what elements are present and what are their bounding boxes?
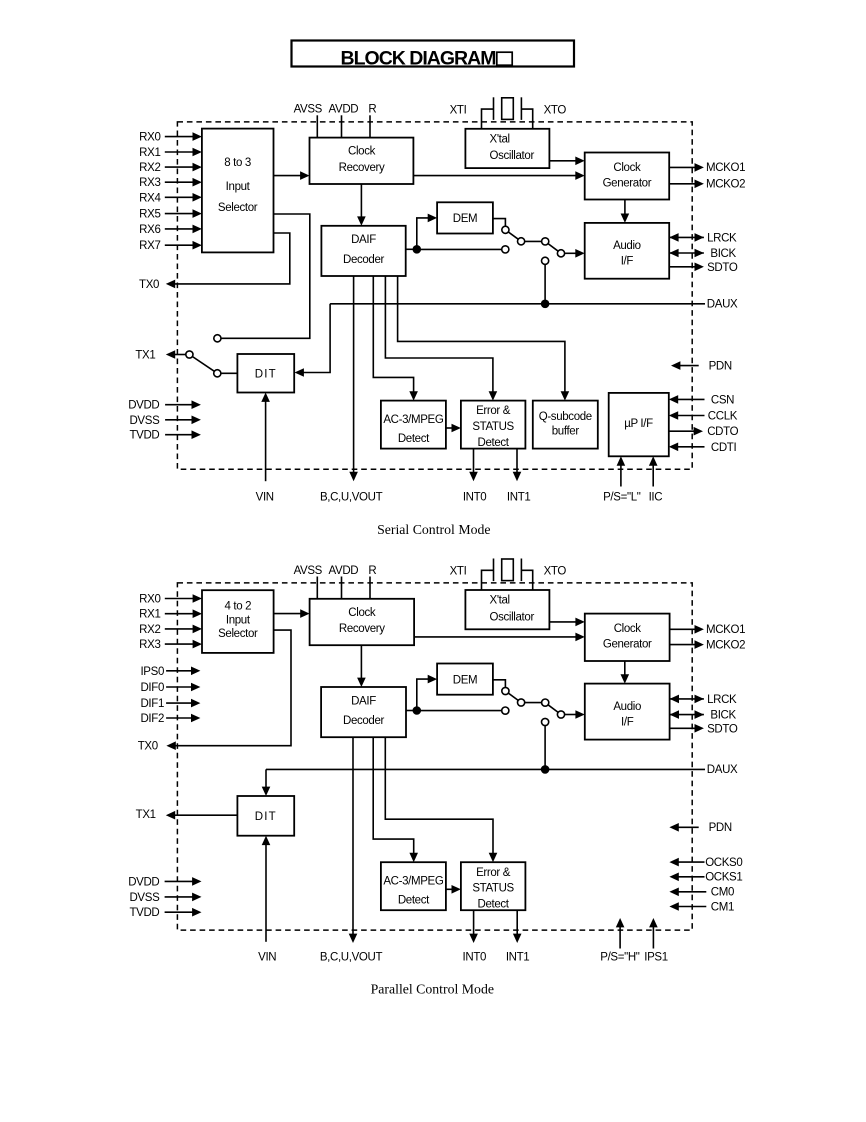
wire: AVDD stub into Clock Recovery (parallel) <box>341 577 343 599</box>
wire: R stub into Clock Recovery (parallel) <box>369 577 371 599</box>
wire: DAIF Decoder output stub (serial) <box>406 248 417 250</box>
svg-text:CSN: CSN <box>711 394 734 406</box>
svg-text:INT0: INT0 <box>463 491 487 503</box>
svg-text:DIT: DIT <box>255 368 277 380</box>
wire: SDTO output (parallel) <box>670 727 696 729</box>
title trailing missing-glyph box <box>497 52 512 65</box>
svg-text:TX0: TX0 <box>138 741 158 753</box>
svg-text:TVDD: TVDD <box>129 907 159 919</box>
wire: Clock Generator to Audio I/F (serial) <box>624 200 626 215</box>
wire: CM1 input (parallel) <box>678 906 706 908</box>
wire: switch arm c1-c2 (parallel) <box>505 691 521 703</box>
wire: RX0 input arrow (serial) <box>165 136 194 138</box>
wire: AVSS stub into Clock Recovery (parallel) <box>316 577 318 599</box>
svg-text:DIF2: DIF2 <box>140 713 164 725</box>
svg-text:Q-subcode: Q-subcode <box>539 411 592 423</box>
block: AC-3/MPEG Detect (parallel) <box>381 862 446 910</box>
svg-text:Error &: Error & <box>476 405 511 417</box>
svg-text:VIN: VIN <box>258 952 276 964</box>
wire: P/S select input (parallel) <box>619 927 621 949</box>
switch contact circle c3 (serial) <box>542 238 549 245</box>
node: DAIF output junction (serial) <box>413 245 422 254</box>
wire: RX5 input arrow (serial) <box>165 213 194 215</box>
svg-text:CM1: CM1 <box>711 901 734 913</box>
svg-text:buffer: buffer <box>552 426 580 438</box>
wire: CM0 input (parallel) <box>678 891 706 893</box>
block: Audio I/F (serial) <box>585 223 670 279</box>
block: Clock Generator (parallel) <box>585 614 670 661</box>
svg-text:PDN: PDN <box>709 361 732 373</box>
svg-text:Recovery: Recovery <box>339 162 385 174</box>
label: Clock Recovery text (parallel) <box>339 607 385 635</box>
svg-text:AVDD: AVDD <box>329 104 359 116</box>
wire: DAUX branch down into DIT (serial) <box>303 304 330 373</box>
wire: Input Selector to Clock Recovery (serial) <box>274 175 302 177</box>
svg-text:IIC: IIC <box>649 491 663 503</box>
svg-text:Recovery: Recovery <box>339 623 385 635</box>
block: uP I/F (serial) <box>609 393 669 456</box>
svg-text:DAIF: DAIF <box>351 695 376 707</box>
switch contact circle c4 (serial) <box>557 250 564 257</box>
svg-text:DAUX: DAUX <box>707 298 738 310</box>
wire: BICK bidirectional (serial) <box>669 252 704 254</box>
svg-text:X'tal: X'tal <box>490 133 510 145</box>
wire: MCKO1 output (parallel) <box>670 628 696 630</box>
wire: node to DEM input (serial) <box>417 218 429 249</box>
svg-text:XTI: XTI <box>450 566 467 578</box>
wire: Clock Recovery to Clock Generator (parallel) <box>414 636 576 638</box>
label: Clock Generator text (serial) <box>603 162 652 189</box>
svg-text:AC-3/MPEG: AC-3/MPEG <box>383 414 444 426</box>
label: X'tal Oscillator text (serial) <box>490 133 535 162</box>
svg-text:P/S="L": P/S="L" <box>603 491 641 503</box>
wire: IPS0 input arrow (parallel) <box>166 670 192 672</box>
svg-text:Parallel Control Mode: Parallel Control Mode <box>371 982 494 997</box>
wire: MCKO1 output (serial) <box>669 166 695 168</box>
wire: switch to Audio I/F input (serial) <box>561 252 576 254</box>
svg-text:BLOCK DIAGRAM: BLOCK DIAGRAM <box>341 48 496 70</box>
svg-text:CDTI: CDTI <box>711 442 737 454</box>
block: DIT (parallel) <box>237 796 294 836</box>
svg-text:MCKO1: MCKO1 <box>706 162 745 174</box>
wire: switch arm c1-c2 (serial) <box>505 230 521 242</box>
wire: node to DEM input (parallel) <box>417 679 429 710</box>
wire: RX7 input arrow (serial) <box>165 244 194 246</box>
switch contact circle c1 (parallel) <box>502 687 509 694</box>
switch contact circle c2 (parallel) <box>518 699 525 706</box>
svg-text:DVDD: DVDD <box>128 400 159 412</box>
svg-text:STATUS: STATUS <box>472 421 514 433</box>
svg-text:Detect: Detect <box>398 895 430 907</box>
wire: AVDD stub into Clock Recovery (serial) <box>341 115 343 137</box>
wire: AC-3/MPEG Detect to Error & STATUS Detect (parallel) <box>446 888 453 890</box>
wire: CDTI input (serial) <box>677 446 704 448</box>
wire: BICK bidirectional (parallel) <box>670 714 704 716</box>
wire: CDTO output (serial) <box>669 430 695 432</box>
wire: AC-3/MPEG Detect to Error & STATUS Detect (serial) <box>446 427 453 429</box>
svg-text:DEM: DEM <box>453 213 478 225</box>
svg-text:RX1: RX1 <box>139 147 160 159</box>
svg-text:RX0: RX0 <box>139 594 160 606</box>
svg-text:Audio: Audio <box>613 701 641 713</box>
wire: SDTO output (serial) <box>669 266 695 268</box>
svg-text:RX3: RX3 <box>139 177 160 189</box>
wire: switch arm c3-c4 (serial) <box>545 242 561 254</box>
svg-text:Selector: Selector <box>218 202 258 214</box>
svg-text:CCLK: CCLK <box>708 411 738 423</box>
svg-text:STATUS: STATUS <box>472 883 514 895</box>
wire: switch arm c3-c4 (parallel) <box>545 703 561 715</box>
wire: MCKO2 output (parallel) <box>670 644 696 646</box>
wire: DIT to TX1 output (parallel) <box>174 814 237 816</box>
label: Error & STATUS Detect text (serial) <box>472 405 514 449</box>
wire: DAUX horizontal line (parallel) <box>266 768 705 770</box>
svg-text:RX5: RX5 <box>139 209 160 221</box>
crystal X1 right lead (serial) <box>521 109 532 129</box>
wire: VIN input into DIT (serial) <box>265 401 267 481</box>
wire: DEM output to switch contact (parallel) <box>493 680 506 691</box>
wire: Clock Recovery to DAIF Decoder (serial) <box>360 184 362 218</box>
svg-text:B,C,U,VOUT: B,C,U,VOUT <box>320 952 383 964</box>
wire: DAUX horizontal line (serial) <box>330 303 705 305</box>
switch contact circle c2 (serial) <box>518 238 525 245</box>
svg-text:MCKO2: MCKO2 <box>706 640 745 652</box>
switch contact circle c5 bypass (parallel) <box>502 707 509 714</box>
label: DAIF Decoder text (serial) <box>343 234 385 266</box>
crystal X1 body (serial) <box>502 98 514 120</box>
switch contact circle TX1 upper (serial) <box>214 335 221 342</box>
wire: IPS1 select input (parallel) <box>652 927 654 949</box>
switch contact circle c6 DAUX tap (serial) <box>542 257 549 264</box>
wire: MCKO2 output (serial) <box>669 183 695 185</box>
svg-text:DAUX: DAUX <box>707 764 738 776</box>
wire: LRCK bidirectional (serial) <box>669 236 704 238</box>
label: X'tal Oscillator text (parallel) <box>490 595 535 624</box>
wire: INT0 output (serial) <box>473 449 475 473</box>
wire: DIF2 input arrow (parallel) <box>166 717 192 719</box>
label: 8 to 3 Input Selector text <box>218 157 258 214</box>
label: DAIF Decoder text (parallel) <box>343 695 385 727</box>
svg-text:Oscillator: Oscillator <box>490 611 535 623</box>
svg-text:8 to 3: 8 to 3 <box>224 157 251 169</box>
svg-text:RX0: RX0 <box>139 132 160 144</box>
crystal X1 left plate (serial) <box>493 97 495 120</box>
svg-text:DIF0: DIF0 <box>140 682 164 694</box>
svg-text:OCKS0: OCKS0 <box>705 857 742 869</box>
svg-text:R: R <box>368 104 376 116</box>
switch contact circle TX1 pole B (serial) <box>214 370 221 377</box>
switch contact circle c1 (serial) <box>502 226 509 233</box>
wire: DAIF to Q-subcode buffer (serial) <box>398 276 565 392</box>
switch contact circle c6 DAUX tap (parallel) <box>542 718 549 725</box>
svg-text:RX6: RX6 <box>139 224 160 236</box>
svg-text:DAIF: DAIF <box>351 234 376 246</box>
wire: TVDD input arrow (serial) <box>165 434 192 436</box>
block: DIT (serial) <box>237 354 294 393</box>
wire: VIN input into DIT (parallel) <box>265 844 267 942</box>
svg-text:RX4: RX4 <box>139 192 161 204</box>
svg-text:DIT: DIT <box>255 811 277 823</box>
crystal X2 left lead (parallel) <box>482 570 494 590</box>
svg-text:Generator: Generator <box>603 638 652 650</box>
node: DAUX junction (parallel) <box>541 765 550 774</box>
svg-text:INT1: INT1 <box>506 952 530 964</box>
block: Clock Recovery (serial) <box>310 138 414 184</box>
wire: RX3 input arrow (parallel) <box>165 643 194 645</box>
wire: node to switch bypass contact (serial) <box>417 248 506 250</box>
svg-text:RX2: RX2 <box>139 624 160 636</box>
wire: Input Selector to Clock Recovery (parallel) <box>274 613 302 615</box>
block: Clock Generator (serial) <box>585 153 670 200</box>
wire: switch to Audio I/F input (parallel) <box>561 714 576 716</box>
svg-text:B,C,U,VOUT: B,C,U,VOUT <box>320 491 383 503</box>
svg-text:LRCK: LRCK <box>707 232 737 244</box>
svg-text:Detect: Detect <box>478 437 510 449</box>
svg-text:INT1: INT1 <box>507 491 531 503</box>
crystal X2 right lead (parallel) <box>521 570 532 590</box>
svg-text:I/F: I/F <box>621 255 634 267</box>
wire: R stub into Clock Recovery (serial) <box>369 115 371 137</box>
wire: OCKS1 input (parallel) <box>678 876 705 878</box>
svg-text:TX1: TX1 <box>136 809 156 821</box>
svg-text:XTO: XTO <box>544 104 567 116</box>
svg-text:Detect: Detect <box>398 433 430 445</box>
wire: Input Selector to TX1 switch upper contact (serial) <box>221 214 310 338</box>
crystal X2 left plate (parallel) <box>493 559 495 582</box>
wire: DAIF to Error & STATUS Detect (parallel) <box>385 737 493 854</box>
wire: DVDD input arrow (parallel) <box>165 880 193 882</box>
label: Clock Generator text (parallel) <box>603 623 652 650</box>
wire: DAIF to Error & STATUS Detect (serial) <box>385 276 493 392</box>
wire: Clock Recovery to DAIF Decoder (parallel) <box>360 645 362 679</box>
label: Audio I/F text (parallel) <box>613 701 641 728</box>
wire: INT1 output (serial) <box>516 449 518 473</box>
wire: P/S select input (serial) <box>620 465 622 487</box>
wire: Clock Generator to Audio I/F (parallel) <box>624 661 626 675</box>
wire: RX2 input arrow (serial) <box>165 166 194 168</box>
svg-text:Clock: Clock <box>348 146 376 158</box>
svg-text:4 to 2: 4 to 2 <box>224 600 251 612</box>
chip boundary (dashed) - serial diagram <box>177 122 692 469</box>
svg-text:DEM: DEM <box>453 674 478 686</box>
chip boundary (dashed) - parallel diagram <box>177 583 692 930</box>
switch contact circle c3 (parallel) <box>542 699 549 706</box>
svg-text:RX7: RX7 <box>139 240 160 252</box>
svg-text:OCKS1: OCKS1 <box>705 872 742 884</box>
block: Error & STATUS Detect (serial) <box>461 401 526 449</box>
wire: IIC select input (serial) <box>652 465 654 487</box>
wire: switch link c2-c3 (serial) <box>521 240 545 242</box>
svg-text:P/S="H": P/S="H" <box>600 952 640 964</box>
wire: TX1 output lead (serial) <box>174 354 186 356</box>
switch contact circle TX1 pole A (serial) <box>186 351 193 358</box>
block: DAIF Decoder (parallel) <box>321 687 406 737</box>
label: AC-3/MPEG Detect text (parallel) <box>383 876 444 907</box>
wire: RX2 input arrow (parallel) <box>165 628 194 630</box>
svg-text:Input: Input <box>226 181 251 193</box>
block: AC-3/MPEG Detect (serial) <box>381 401 446 449</box>
block: DEM (serial) <box>437 202 493 233</box>
block: DAIF Decoder (serial) <box>321 226 405 276</box>
wire: node to switch bypass contact (parallel) <box>417 710 506 712</box>
block: DEM (parallel) <box>437 664 493 695</box>
svg-text:Error &: Error & <box>476 867 511 879</box>
svg-text:Generator: Generator <box>603 177 652 189</box>
wire: Clock Recovery to Clock Generator (serial) <box>413 175 576 177</box>
wire: RX1 input arrow (serial) <box>165 151 194 153</box>
svg-text:MCKO1: MCKO1 <box>706 624 745 636</box>
svg-text:Decoder: Decoder <box>343 715 385 727</box>
wire: X'tal Oscillator to Clock Generator (parallel) <box>549 621 576 623</box>
svg-text:CDTO: CDTO <box>707 426 738 438</box>
wire: DAIF to AC-3/MPEG Detect (parallel) <box>373 737 414 854</box>
block: X'tal Oscillator (serial) <box>465 129 549 168</box>
svg-text:AVDD: AVDD <box>329 565 359 577</box>
node: DAIF output junction (parallel) <box>413 706 422 715</box>
wire: DVDD input arrow (serial) <box>165 404 192 406</box>
wire: INT0 output (parallel) <box>473 910 475 934</box>
wire: TX1 switch to DIT (serial) <box>221 372 238 374</box>
wire: CCLK input (serial) <box>677 415 704 417</box>
wire: X'tal Oscillator to Clock Generator (serial) <box>549 160 576 162</box>
svg-text:RX2: RX2 <box>139 162 160 174</box>
svg-text:Clock: Clock <box>613 162 641 174</box>
svg-text:AVSS: AVSS <box>294 104 323 116</box>
svg-text:XTI: XTI <box>450 105 467 117</box>
wire: OCKS0 input (parallel) <box>678 861 705 863</box>
switch contact circle c5 bypass (serial) <box>502 246 509 253</box>
title frame: BLOCK DIAGRAM header box <box>292 41 575 67</box>
wire: Input Selector to TX0 loopback (parallel) <box>175 630 291 746</box>
svg-text:I/F: I/F <box>621 716 634 728</box>
svg-text:BICK: BICK <box>710 710 736 722</box>
block: Clock Recovery (parallel) <box>310 599 415 645</box>
label: Clock Recovery text (serial) <box>339 146 385 174</box>
svg-text:Decoder: Decoder <box>343 254 385 266</box>
wire: DAIF to B,C,U,VOUT output (serial) <box>353 276 355 473</box>
svg-text:RX3: RX3 <box>139 639 160 651</box>
label: AC-3/MPEG Detect text (serial) <box>383 414 444 445</box>
svg-text:TVDD: TVDD <box>129 430 159 442</box>
wire: RX6 input arrow (serial) <box>165 228 194 230</box>
svg-text:Clock: Clock <box>614 623 642 635</box>
wire: RX4 input arrow (serial) <box>165 196 194 198</box>
svg-text:IPS0: IPS0 <box>140 666 164 678</box>
block: 8 to 3 Input Selector <box>202 129 274 253</box>
wire: Input Selector to TX0 loopback (serial) <box>174 233 289 284</box>
svg-text:SDTO: SDTO <box>707 724 738 736</box>
crystal X2 body (parallel) <box>502 559 514 581</box>
wire: PDN input (parallel) <box>678 826 699 828</box>
wire: CSN input (serial) <box>677 398 704 400</box>
svg-text:µP I/F: µP I/F <box>624 418 653 430</box>
svg-text:R: R <box>368 565 376 577</box>
svg-text:BICK: BICK <box>710 248 736 260</box>
wire: DAIF to AC-3/MPEG Detect (serial) <box>373 276 413 392</box>
wire: DIF0 input arrow (parallel) <box>166 686 192 688</box>
svg-text:X'tal: X'tal <box>490 595 510 607</box>
svg-text:TX1: TX1 <box>135 350 155 362</box>
node: DAUX junction (serial) <box>541 300 550 309</box>
wire: RX0 input arrow (parallel) <box>165 598 194 600</box>
wire: DAUX branch down into DIT (parallel) <box>265 769 267 787</box>
svg-text:LRCK: LRCK <box>707 694 737 706</box>
wire: RX1 input arrow (parallel) <box>165 613 194 615</box>
label: Audio I/F text (serial) <box>613 240 641 267</box>
svg-text:AVSS: AVSS <box>294 565 323 577</box>
svg-text:Oscillator: Oscillator <box>490 150 535 162</box>
svg-text:DVDD: DVDD <box>128 876 159 888</box>
block: 4 to 2 Input Selector <box>202 590 274 653</box>
wire: switch link c2-c3 (parallel) <box>521 702 545 704</box>
svg-text:RX1: RX1 <box>139 609 160 621</box>
block: X'tal Oscillator (parallel) <box>465 590 549 629</box>
wire: DEM output to switch contact (serial) <box>493 219 506 230</box>
svg-text:PDN: PDN <box>709 822 732 834</box>
crystal X1 left lead (serial) <box>482 109 494 129</box>
label: 4 to 2 Input Selector text <box>218 600 258 640</box>
wire: TX1 switch arm (serial) <box>189 355 217 374</box>
wire: DAIF to B,C,U,VOUT output (parallel) <box>352 737 354 934</box>
wire: AVSS stub into Clock Recovery (serial) <box>316 115 318 137</box>
wire: RX3 input arrow (serial) <box>165 181 194 183</box>
wire: INT1 output (parallel) <box>516 910 518 934</box>
svg-text:IPS1: IPS1 <box>644 952 668 964</box>
svg-text:Input: Input <box>226 614 251 626</box>
wire: LRCK bidirectional (parallel) <box>670 698 704 700</box>
block: Q-subcode buffer (serial) <box>533 401 598 449</box>
label: Q-subcode buffer text (serial) <box>539 411 592 438</box>
svg-text:Clock: Clock <box>348 607 376 619</box>
crystal X1 right plate (serial) <box>520 97 522 120</box>
svg-text:DIF1: DIF1 <box>140 698 164 710</box>
wire: DVSS input arrow (serial) <box>165 419 192 421</box>
block: Error & STATUS Detect (parallel) <box>461 862 526 910</box>
svg-text:Serial Control Mode: Serial Control Mode <box>377 522 490 537</box>
wire: TVDD input arrow (parallel) <box>165 911 193 913</box>
wire: DAUX tap contact down to DAUX line (parallel) <box>544 726 546 770</box>
svg-text:Detect: Detect <box>478 898 510 910</box>
wire: DVSS input arrow (parallel) <box>165 896 193 898</box>
svg-text:CM0: CM0 <box>711 887 734 899</box>
svg-text:TX0: TX0 <box>139 279 159 291</box>
svg-text:VIN: VIN <box>256 491 274 503</box>
svg-text:MCKO2: MCKO2 <box>706 179 745 191</box>
wire: DAIF Decoder output stub (parallel) <box>406 710 417 712</box>
wire: PDN input (serial) <box>680 365 699 367</box>
wire: DAUX tap contact down to DAUX line (serial) <box>544 264 546 304</box>
svg-text:SDTO: SDTO <box>707 262 738 274</box>
block: Audio I/F (parallel) <box>585 684 670 740</box>
svg-text:DVSS: DVSS <box>129 892 160 904</box>
svg-text:INT0: INT0 <box>463 952 487 964</box>
wire: DIF1 input arrow (parallel) <box>166 702 192 704</box>
svg-text:Selector: Selector <box>218 628 258 640</box>
svg-text:AC-3/MPEG: AC-3/MPEG <box>383 876 444 888</box>
svg-text:XTO: XTO <box>544 566 567 578</box>
svg-text:Audio: Audio <box>613 240 641 252</box>
svg-text:DVSS: DVSS <box>129 415 160 427</box>
crystal X2 right plate (parallel) <box>520 559 522 582</box>
switch contact circle c4 (parallel) <box>557 711 564 718</box>
label: Error & STATUS Detect text (parallel) <box>472 867 514 911</box>
